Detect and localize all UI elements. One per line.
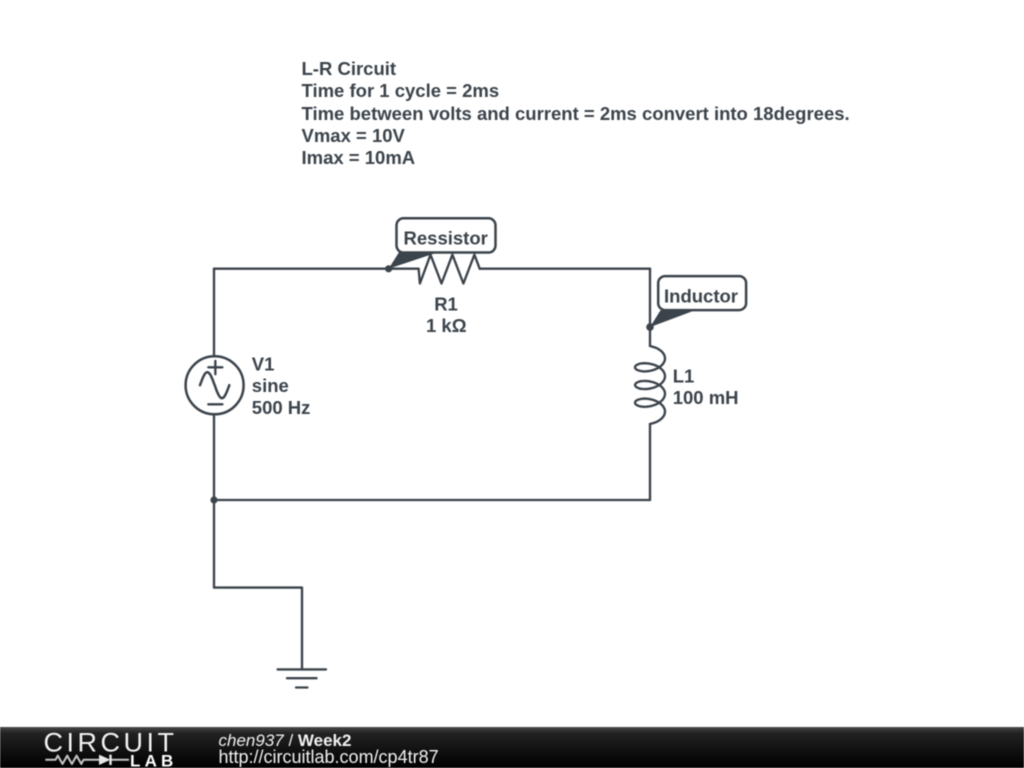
footer black bar <box>0 727 1024 768</box>
wire right vertical upper <box>649 269 651 346</box>
logo resistor-diode squiggle <box>45 756 129 764</box>
callout box Ressistor <box>397 218 496 252</box>
inductor L1 coil <box>635 346 665 424</box>
svg-text:sine: sine <box>252 375 289 396</box>
footer line 2: url <box>219 747 439 768</box>
wire top-left horizontal (node to resistor) <box>214 268 419 270</box>
logo diode <box>99 755 111 765</box>
svg-text:Ressistor: Ressistor <box>404 227 488 248</box>
callout tail for Ressistor <box>389 252 435 268</box>
wire left vertical lower <box>213 414 215 500</box>
voltage source V1 circle <box>186 356 244 414</box>
node junction at resistor left <box>385 265 392 272</box>
callout tail for Inductor <box>650 310 693 327</box>
footer line 1: user / project <box>219 731 352 751</box>
ground symbol bars <box>278 669 326 687</box>
header notes text <box>302 58 850 170</box>
svg-text:100 mH: 100 mH <box>673 387 739 408</box>
V1 plus sign <box>208 361 222 374</box>
wire ground branch: down, right, down <box>214 500 302 669</box>
svg-text:1 kΩ: 1 kΩ <box>426 315 467 336</box>
V1 minus sign <box>208 403 222 405</box>
node junction left-bottom <box>210 496 217 503</box>
wire resistor to top-right corner <box>480 268 650 270</box>
svg-text:R1: R1 <box>434 293 458 314</box>
CircuitLab logo <box>0 727 200 768</box>
V1 sine squiggle <box>200 372 229 398</box>
svg-text:V1: V1 <box>252 354 275 375</box>
resistor R1 <box>419 255 480 284</box>
svg-text:L1: L1 <box>673 365 695 386</box>
svg-text:LAB: LAB <box>130 751 178 768</box>
wire left vertical upper <box>213 269 215 357</box>
callout box Inductor <box>658 276 746 310</box>
svg-text:500 Hz: 500 Hz <box>252 397 311 418</box>
wire right vertical lower <box>649 424 651 500</box>
node junction above inductor <box>646 323 654 331</box>
svg-text:Inductor: Inductor <box>664 285 738 306</box>
wire bottom horizontal <box>214 499 650 501</box>
